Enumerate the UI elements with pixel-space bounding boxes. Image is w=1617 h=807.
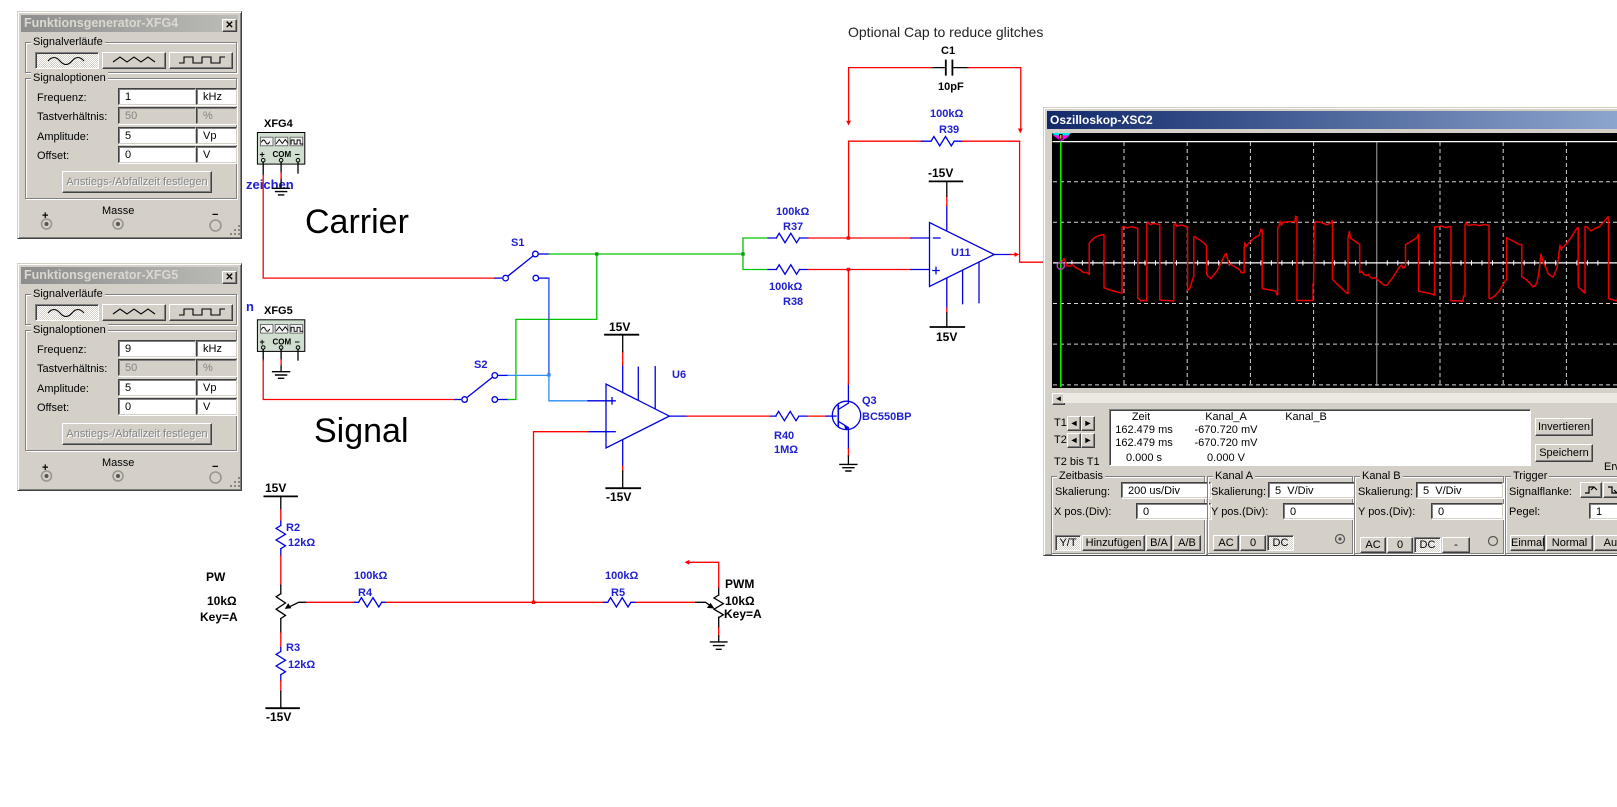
switch S1 — [503, 251, 549, 281]
resistor R38 100k — [743, 254, 808, 308]
resistor R40 1M — [771, 411, 808, 456]
svg-text:-15V: -15V — [266, 710, 291, 724]
junction green at R37/R38 split — [741, 252, 744, 255]
svg-text:Key=A: Key=A — [724, 607, 762, 621]
wire PW wiper to R4 (red) — [307, 601, 355, 603]
svg-text:PWM: PWM — [725, 577, 754, 591]
cursor readout panel — [1109, 409, 1531, 466]
wire output vertical to scope (red) — [1020, 141, 1043, 262]
svg-text:R4: R4 — [358, 587, 373, 599]
wire U6 minus input (red) from PW node — [534, 432, 589, 603]
wire XFG5 COM to ground — [280, 349, 282, 371]
group Kanal A — [1207, 476, 1353, 554]
waveform channel A — [1061, 216, 1617, 301]
svg-text:S1: S1 — [511, 237, 524, 249]
resistor R4 100k — [354, 570, 387, 607]
ground below XFG4 — [273, 188, 290, 195]
resistor R5 100k — [604, 570, 639, 607]
wire S1 alternate down (blue) — [548, 278, 550, 375]
svg-text:−: − — [295, 337, 300, 347]
group Kanal B — [1354, 476, 1504, 554]
wire R5 to PWM pot wiper (red) — [636, 601, 696, 603]
junction R37/R39 node — [847, 236, 850, 239]
wire U11 output (red) with arrow — [1011, 254, 1016, 256]
capacitor C1 10pF — [932, 45, 969, 93]
svg-text:zeichen: zeichen — [246, 177, 294, 192]
center axis with ticks — [1053, 262, 1617, 264]
svg-text:1MΩ: 1MΩ — [774, 444, 798, 456]
cursor T1 handle — [1053, 135, 1070, 141]
ground below PWM pot — [711, 642, 727, 649]
svg-text:XFG4: XFG4 — [264, 118, 294, 130]
svg-text:U6: U6 — [672, 369, 686, 381]
junction carrier/green — [595, 252, 598, 255]
power -15V rail below U6 — [622, 466, 624, 471]
svg-text:12kΩ: 12kΩ — [288, 659, 315, 671]
op-amp U11 — [930, 206, 1011, 308]
svg-text:−: − — [295, 150, 300, 160]
ground below Q3 — [840, 464, 857, 471]
svg-text:R40: R40 — [774, 430, 794, 442]
svg-text:100kΩ: 100kΩ — [930, 108, 963, 120]
wire Q3 collector up (red) — [847, 384, 849, 401]
wire U6 output (red) — [687, 415, 771, 417]
svg-text:10pF: 10pF — [938, 81, 964, 93]
wire S1 to comparator net (green, carrier) — [549, 253, 743, 255]
svg-text:R38: R38 — [783, 296, 803, 308]
wire R2 to PW pot (red) — [280, 556, 282, 585]
wire R39 left down to minus node (red) — [848, 141, 850, 238]
scrollbar — [1052, 393, 1065, 405]
svg-text:BC550BP: BC550BP — [862, 411, 912, 423]
wire PWM bottom to ground — [718, 628, 720, 636]
wire R37 to U11 minus (red) — [808, 237, 911, 239]
wire R4 to R5 (red) — [386, 601, 603, 603]
transistor Q3 BC550BP — [832, 401, 860, 430]
svg-text:U11: U11 — [951, 247, 971, 259]
svg-text:COM: COM — [273, 337, 292, 346]
svg-text:100kΩ: 100kΩ — [776, 206, 809, 218]
function generator XFG4 — [257, 118, 304, 164]
cursor T1 green line — [1060, 142, 1062, 388]
svg-text:10kΩ: 10kΩ — [207, 594, 237, 608]
svg-text:R37: R37 — [783, 221, 803, 233]
svg-text:R2: R2 — [286, 522, 300, 534]
svg-text:15V: 15V — [936, 330, 957, 344]
resistor R3 12k — [276, 642, 315, 681]
function generator XFG5 — [257, 305, 304, 351]
wire S2 to U6 plus (cyan) — [508, 374, 549, 376]
wire PW to R3 (red) — [280, 633, 282, 648]
svg-text:Optional Cap to reduce glitche: Optional Cap to reduce glitches — [848, 24, 1043, 40]
cursor probe circle — [1057, 262, 1064, 269]
wire C1 left (red) with arrow to R39 node — [849, 68, 932, 121]
svg-text:15V: 15V — [265, 481, 286, 495]
svg-text:100kΩ: 100kΩ — [605, 570, 638, 582]
svg-text:XFG5: XFG5 — [264, 305, 293, 317]
wire XFG4 minus stub — [297, 162, 299, 173]
resistor R37 100k — [743, 206, 809, 254]
svg-text:12kΩ: 12kΩ — [288, 537, 315, 549]
switch S2 — [462, 373, 508, 403]
power 15V rail below U11 — [946, 308, 948, 313]
svg-text:10kΩ: 10kΩ — [725, 594, 755, 608]
svg-text:PW: PW — [206, 570, 226, 584]
wire XFG4 COM to ground — [280, 162, 282, 188]
wire C1 right (red) with arrow to output node — [969, 68, 1021, 129]
svg-text:+: + — [260, 337, 265, 347]
group Zeitbasis — [1051, 476, 1205, 554]
wire XFG4 plus lead — [262, 162, 264, 175]
group Trigger — [1505, 476, 1617, 554]
svg-text:COM: COM — [273, 150, 292, 159]
potentiometer PW 10k — [200, 570, 307, 633]
svg-text:+: + — [260, 150, 265, 160]
resistor R2 12k — [276, 521, 315, 556]
junction Q3 collector node — [847, 268, 850, 271]
power -15V rail above U11 — [946, 196, 948, 206]
svg-text:-15V: -15V — [606, 490, 631, 504]
svg-text:100kΩ: 100kΩ — [769, 281, 802, 293]
wire S2 alternate to carrier net (green) — [508, 254, 597, 400]
potentiometer PWM 10k — [696, 577, 762, 628]
svg-text:-15V: -15V — [928, 166, 953, 180]
svg-text:100kΩ: 100kΩ — [354, 570, 387, 582]
wire R3 to -15V rail — [280, 681, 282, 692]
wire PWM top with arrow (red) — [689, 562, 719, 587]
power -15V rail bottom of divider — [266, 707, 299, 709]
svg-text:R39: R39 — [939, 124, 959, 136]
ground below XFG5 — [273, 372, 290, 379]
svg-text:Key=A: Key=A — [200, 610, 238, 624]
wire R38 to U11 plus (red) — [808, 269, 911, 271]
wire XFG5 minus stub — [297, 349, 299, 360]
svg-text:R5: R5 — [611, 587, 625, 599]
svg-text:Carrier: Carrier — [305, 203, 409, 241]
wire Q3 emitter to ground — [847, 430, 849, 449]
svg-text:Q3: Q3 — [862, 395, 877, 407]
wire carrier net XFG4 to S1 (red) — [263, 175, 495, 278]
wire R40 to Q3 base (red) — [808, 415, 827, 417]
power 15V rail above U6 — [622, 352, 624, 365]
wire XFG5 plus lead — [262, 349, 264, 360]
svg-text:Signal: Signal — [314, 412, 409, 450]
wire signal net XFG5 to S2 (red) — [263, 360, 455, 400]
graticule — [1053, 141, 1617, 143]
svg-text:S2: S2 — [474, 359, 487, 371]
resistor R39 100k feedback — [849, 108, 1020, 146]
svg-text:C1: C1 — [941, 45, 955, 57]
svg-text:15V: 15V — [609, 320, 630, 334]
op-amp U6 — [588, 365, 687, 466]
svg-text:R3: R3 — [286, 642, 300, 654]
junction PWM comparator node — [532, 601, 535, 604]
svg-text:n: n — [246, 299, 254, 314]
junction cyan net — [547, 373, 550, 376]
